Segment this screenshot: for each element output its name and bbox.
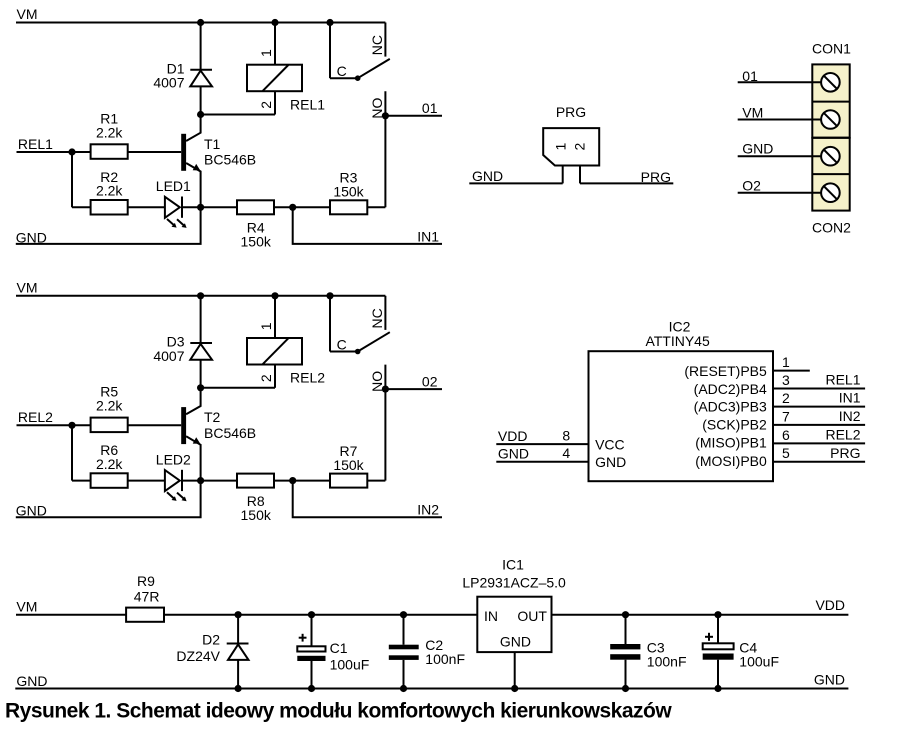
svg-text:IN1: IN1 — [839, 390, 861, 406]
svg-text:3: 3 — [782, 372, 790, 388]
svg-text:01: 01 — [422, 100, 438, 116]
svg-text:T2: T2 — [204, 409, 221, 425]
node VDD (regulator output rail) — [552, 597, 849, 615]
wire R3 to NO node — [367, 206, 385, 208]
junction REL2 net split — [68, 422, 75, 429]
svg-text:CON2: CON2 — [812, 219, 851, 235]
svg-text:GND: GND — [814, 672, 845, 688]
svg-text:100uF: 100uF — [739, 654, 779, 670]
junction on VM at diode D3 — [197, 292, 204, 299]
svg-text:O2: O2 — [742, 177, 761, 193]
wire R1 to T1 base — [128, 151, 182, 153]
screw terminal 2 — [821, 110, 840, 129]
node 01 (output wire) — [385, 100, 442, 116]
svg-text:BC546B: BC546B — [204, 425, 256, 441]
svg-text:R9: R9 — [137, 573, 155, 589]
svg-text:GND: GND — [16, 673, 47, 689]
svg-text:1: 1 — [258, 49, 274, 57]
junction GND at C1 — [308, 685, 315, 692]
svg-text:(RESET)PB5: (RESET)PB5 — [684, 363, 767, 379]
node IN2 (sense wire) — [293, 481, 442, 518]
svg-text:8: 8 — [562, 428, 570, 444]
junction R4 / R3 / IN1 — [289, 204, 296, 211]
svg-text:2.2k: 2.2k — [96, 124, 123, 140]
svg-text:IN2: IN2 — [839, 408, 861, 424]
svg-text:47R: 47R — [134, 589, 160, 605]
node O2 wire to terminal 4 — [738, 177, 821, 193]
capacitor C2 100nF — [389, 615, 465, 689]
node REL1 (drive input wire) — [17, 136, 91, 152]
diode D3 4007 (flyback) — [153, 296, 212, 388]
screw terminal 4 — [821, 183, 840, 202]
wire emitter node to R4 — [201, 206, 237, 208]
relay coil REL1 — [247, 23, 325, 115]
svg-text:GND: GND — [498, 445, 529, 461]
zener diode D2 DZ24V — [176, 615, 248, 689]
resistor R5 2.2k — [91, 384, 128, 432]
svg-text:150k: 150k — [333, 457, 364, 473]
connector CON2 (screw terminal block) — [812, 138, 851, 236]
resistor R9 47R — [126, 573, 164, 622]
svg-text:(MOSI)PB0: (MOSI)PB0 — [695, 453, 767, 469]
capacitor C4 100uF (electrolytic) — [703, 615, 779, 689]
wire collector node to REL1 pin 2 — [201, 114, 275, 116]
junction on VM at relay REL2 pin 1 — [271, 292, 278, 299]
svg-text:VM: VM — [16, 599, 37, 615]
wire R9 to IC1 IN — [164, 614, 477, 616]
svg-text:4007: 4007 — [153, 348, 184, 364]
svg-text:BC546B: BC546B — [204, 152, 256, 168]
relay contact NC — [369, 23, 386, 57]
resistor R2 2.2k — [91, 169, 128, 215]
node GND (channel 2) — [16, 481, 201, 519]
resistor R4 150k — [237, 200, 274, 249]
svg-text:VCC: VCC — [595, 437, 625, 453]
led LED1 — [156, 178, 201, 228]
wire R7 to NO node — [367, 480, 385, 482]
svg-text:(SCK)PB2: (SCK)PB2 — [702, 417, 767, 433]
svg-text:REL1: REL1 — [290, 96, 325, 112]
junction GND at C4 — [714, 685, 721, 692]
transistor T1 BC546B — [181, 115, 256, 208]
svg-text:5: 5 — [782, 445, 790, 461]
wire common C branch — [330, 296, 358, 353]
junction on VM at diode D1 — [197, 19, 204, 26]
pin 7 of IC2 (net IN2) — [773, 408, 865, 425]
svg-text:7: 7 — [782, 408, 790, 424]
svg-text:GND: GND — [500, 634, 531, 650]
svg-text:150k: 150k — [241, 507, 272, 523]
junction T2 emitter / LED2 cathode — [197, 477, 204, 484]
junction on VM at contact C branch — [326, 19, 333, 26]
svg-text:4: 4 — [562, 445, 570, 461]
svg-text:GND: GND — [742, 141, 773, 157]
svg-text:LED1: LED1 — [156, 178, 191, 194]
svg-text:1: 1 — [258, 322, 274, 330]
svg-text:(MISO)PB1: (MISO)PB1 — [695, 435, 767, 451]
pin 8 of IC2 (net VDD) — [496, 428, 588, 445]
junction NO / output 02 — [382, 386, 389, 393]
svg-text:IC2: IC2 — [669, 318, 691, 334]
svg-text:VM: VM — [17, 6, 38, 22]
svg-text:T1: T1 — [204, 136, 221, 152]
relay contact NC — [369, 296, 386, 330]
pin 1 of IC2 — [773, 354, 810, 371]
svg-text:GND: GND — [472, 168, 503, 184]
junction GND at C3 — [622, 685, 629, 692]
junction on VM at relay REL1 pin 1 — [271, 19, 278, 26]
node IN1 (sense wire) — [293, 207, 442, 244]
svg-text:100uF: 100uF — [330, 657, 370, 673]
svg-text:OUT: OUT — [517, 608, 547, 624]
node VM (channel 2 supply rail) — [16, 280, 385, 296]
svg-text:IN: IN — [484, 608, 498, 624]
svg-text:(ADC3)PB3: (ADC3)PB3 — [694, 399, 767, 415]
node REL2 (drive input wire) — [17, 409, 91, 425]
connector PRG (2-pin programming header) — [543, 104, 599, 166]
svg-text:DZ24V: DZ24V — [176, 648, 220, 664]
ic U IC1 LP2931ACZ-5.0 (voltage regulator) — [462, 557, 566, 653]
node GND wire to terminal 3 — [738, 141, 821, 157]
svg-text:IC1: IC1 — [502, 557, 524, 573]
wire R8 to R7 — [274, 480, 330, 482]
svg-text:2: 2 — [571, 143, 587, 151]
switch blade to common C — [355, 59, 390, 81]
svg-text:PRG: PRG — [556, 104, 586, 120]
svg-text:100nF: 100nF — [647, 654, 687, 670]
svg-text:PRG: PRG — [830, 445, 860, 461]
pin 1 of PRG — [562, 166, 564, 184]
svg-text:1: 1 — [782, 354, 790, 370]
wire R5 to T2 base — [128, 424, 182, 426]
svg-text:2.2k: 2.2k — [96, 398, 123, 414]
pin 3 of IC2 (net REL1) — [773, 372, 865, 389]
junction node D3 anode / T2 collector — [197, 384, 204, 391]
junction node D1 anode / T1 collector — [197, 111, 204, 118]
wire R4 to R3 — [274, 206, 330, 208]
junction GND at IC1 GND — [511, 685, 518, 692]
svg-text:C: C — [337, 63, 347, 79]
node VM wire to terminal 2 — [738, 104, 821, 120]
wire emitter node to R8 — [201, 480, 237, 482]
screw terminal 1 — [821, 73, 840, 92]
junction NO / output 01 — [382, 112, 389, 119]
svg-text:IN1: IN1 — [417, 228, 439, 244]
svg-text:2: 2 — [258, 101, 274, 109]
resistor R3 150k — [330, 170, 367, 215]
pin 4 of IC2 (net GND) — [496, 445, 588, 462]
svg-text:NC: NC — [369, 308, 385, 328]
svg-text:VM: VM — [742, 104, 763, 120]
svg-text:2: 2 — [258, 374, 274, 382]
svg-text:REL2: REL2 — [18, 409, 53, 425]
resistor R1 2.2k — [91, 110, 128, 158]
svg-text:REL2: REL2 — [825, 427, 860, 443]
svg-text:1: 1 — [552, 143, 568, 151]
svg-text:02: 02 — [422, 374, 438, 390]
svg-text:REL2: REL2 — [290, 370, 325, 386]
svg-text:2.2k: 2.2k — [96, 183, 123, 199]
svg-text:100nF: 100nF — [425, 651, 465, 667]
svg-text:GND: GND — [16, 503, 47, 519]
connector CON1 (screw terminal block) — [812, 41, 851, 138]
led LED2 — [156, 452, 201, 502]
junction VM rail at D2 — [235, 611, 242, 618]
pin 2 of PRG — [579, 166, 581, 184]
junction on VM at contact C branch — [326, 292, 333, 299]
junction VDD at C3 — [622, 611, 629, 618]
svg-text:VDD: VDD — [815, 597, 845, 613]
wire R6 to LED2 — [128, 480, 165, 482]
svg-text:REL1: REL1 — [18, 136, 53, 152]
resistor R8 150k — [237, 474, 274, 523]
junction VDD at C4 — [714, 611, 721, 618]
wire REL1 node down to R2 — [72, 152, 91, 207]
svg-text:VDD: VDD — [498, 428, 528, 444]
relay contact NO — [369, 365, 386, 481]
svg-text:GND: GND — [595, 454, 626, 470]
junction GND at D2 — [235, 685, 242, 692]
node VM (channel 1 supply rail) — [16, 6, 385, 22]
node GND (bottom ground rail) — [15, 672, 848, 689]
node PRG (net wire) — [580, 169, 673, 185]
diode D1 4007 (flyback) — [153, 23, 212, 115]
svg-text:REL1: REL1 — [825, 372, 860, 388]
pin 5 of IC2 (net PRG) — [773, 445, 865, 462]
svg-text:150k: 150k — [241, 234, 272, 250]
wire R2 to LED1 — [128, 206, 165, 208]
capacitor C1 100uF (electrolytic) — [297, 615, 369, 689]
svg-text:CON1: CON1 — [812, 41, 851, 57]
svg-text:4007: 4007 — [153, 75, 184, 91]
resistor R7 150k — [330, 443, 367, 488]
svg-text:IN2: IN2 — [417, 502, 439, 518]
junction R8 / R7 / IN2 — [289, 477, 296, 484]
svg-text:Rysunek 1. Schemat ideowy modu: Rysunek 1. Schemat ideowy modułu komfort… — [5, 700, 672, 723]
wire IC1 GND pin to ground — [514, 652, 516, 688]
wire common C branch — [330, 23, 358, 80]
svg-text:D2: D2 — [202, 631, 220, 647]
node 01 wire to terminal 1 — [738, 68, 821, 84]
svg-text:2.2k: 2.2k — [96, 456, 123, 472]
ic U IC2 ATTINY45 (microcontroller) — [589, 318, 774, 481]
switch blade to common C — [355, 332, 390, 354]
svg-text:ATTINY45: ATTINY45 — [645, 333, 710, 349]
resistor R6 2.2k — [91, 442, 128, 488]
svg-text:LED2: LED2 — [156, 452, 191, 468]
svg-text:(ADC2)PB4: (ADC2)PB4 — [694, 381, 767, 397]
svg-text:C1: C1 — [330, 640, 348, 656]
node VM (power input rail) — [16, 599, 126, 615]
svg-text:C: C — [337, 337, 347, 353]
svg-text:6: 6 — [782, 427, 790, 443]
relay coil REL2 — [247, 296, 325, 388]
pin 2 of IC2 (net IN1) — [773, 390, 865, 407]
junction T1 emitter / LED1 cathode — [197, 204, 204, 211]
svg-text:2: 2 — [782, 390, 790, 406]
relay contact NO — [369, 91, 386, 207]
pin 6 of IC2 (net REL2) — [773, 427, 865, 444]
junction VM rail at C2 — [400, 611, 407, 618]
svg-text:LP2931ACZ–5.0: LP2931ACZ–5.0 — [462, 575, 566, 591]
node 02 (output wire) — [385, 374, 442, 390]
capacitor C3 100nF — [610, 615, 686, 689]
svg-text:NC: NC — [369, 35, 385, 55]
junction REL1 net split — [68, 148, 75, 155]
wire REL2 node down to R6 — [72, 425, 91, 480]
node GND at PRG — [469, 168, 562, 184]
node GND (channel 1) — [16, 207, 201, 245]
wire collector node to REL2 pin 2 — [201, 387, 275, 389]
screw terminal 3 — [821, 147, 840, 166]
transistor T2 BC546B — [181, 388, 256, 481]
svg-text:150k: 150k — [333, 184, 364, 200]
junction GND at C2 — [400, 685, 407, 692]
svg-text:VM: VM — [17, 280, 38, 296]
junction VM rail at C1 — [308, 611, 315, 618]
